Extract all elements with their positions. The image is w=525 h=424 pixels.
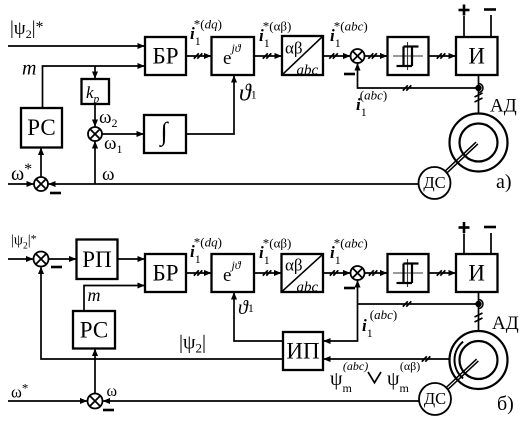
- slash sum-relay (b): [369, 270, 378, 275]
- slash relay-inverter (a): [437, 53, 446, 58]
- minus flux sum (b): [51, 266, 62, 269]
- svg-text:И: И: [468, 261, 485, 286]
- wire speed feedback (b): [103, 400, 418, 402]
- wire minus lead (b): [490, 233, 492, 254]
- wire current feedback to IP (b): [324, 304, 358, 341]
- slash ejtheta-ab (b): [263, 270, 272, 275]
- svg-text:i1*(abc): i1*(abc): [330, 236, 368, 268]
- wire ejtheta to ab-abc (a): [254, 55, 281, 57]
- svg-text:i1*(abc): i1*(abc): [330, 19, 368, 51]
- svg-text:РС: РС: [80, 318, 108, 343]
- motor AD (a): [450, 114, 508, 172]
- svg-text:РС: РС: [27, 115, 55, 140]
- block inverter I (a): [456, 37, 498, 75]
- slash flux measurement (b): [422, 356, 431, 361]
- svg-text:i1(abc): i1(abc): [362, 307, 397, 340]
- wire m from PC to BR (a): [43, 66, 145, 108]
- svg-text:ИП: ИП: [286, 339, 319, 364]
- svg-text:|ψ2|*: |ψ2|*: [11, 232, 37, 252]
- svg-text:ψm(αβ): ψm(αβ): [387, 359, 420, 395]
- minus speed sum (a): [50, 192, 61, 195]
- minus supply (a): [484, 8, 496, 11]
- slash ejtheta-ab (a): [263, 53, 272, 58]
- svg-text:m: m: [22, 58, 36, 80]
- wire flux measurement to IP (b): [324, 358, 450, 360]
- symbol vee (b): [368, 372, 381, 383]
- wire flux reference |psi2|* (b): [8, 258, 33, 260]
- wire ab-abc to sum (b): [323, 272, 350, 274]
- wire kp to summing junction (a): [94, 104, 96, 126]
- circle DS sensor (b): [419, 383, 451, 415]
- block integrator (a): [144, 115, 186, 153]
- block alphabeta-abc (a): [282, 36, 323, 75]
- wire relay to inverter (a): [429, 55, 456, 57]
- block IP (b): [283, 332, 323, 370]
- svg-text:РП: РП: [82, 247, 111, 272]
- wire sum to relay (a): [365, 55, 387, 57]
- wire ab-abc to sum (a): [323, 55, 350, 57]
- wire current feedback (a): [358, 64, 479, 88]
- svg-text:АД: АД: [490, 96, 517, 117]
- symbol hysteresis (a): [393, 42, 423, 70]
- block alphabeta-abc (b): [282, 254, 324, 292]
- block PC (a): [21, 108, 62, 148]
- wire current feedback to sum (b): [357, 281, 359, 304]
- svg-text:abc: abc: [297, 280, 319, 296]
- wire speed sum to PC (b): [94, 349, 96, 393]
- wire IP theta1 to ejtheta (b): [234, 293, 283, 341]
- svg-text:ДС: ДС: [423, 173, 445, 192]
- svg-text:ω*: ω*: [11, 381, 28, 402]
- svg-text:ϑ1: ϑ1: [239, 81, 257, 107]
- svg-text:ϑ1: ϑ1: [238, 297, 254, 319]
- summing junction current (b): [351, 266, 365, 280]
- slash motor lead (a): [475, 93, 483, 102]
- svg-text:ω: ω: [107, 383, 118, 400]
- wire plus lead (b): [463, 234, 465, 255]
- summing junction flux (b): [34, 252, 49, 267]
- svg-text:ω1: ω1: [104, 133, 123, 156]
- slash ab-sum (a): [329, 53, 338, 58]
- wire inverter to motor (b): [478, 292, 480, 332]
- wire IP psi2 to flux sum (b): [41, 267, 283, 359]
- summing junction current (a): [351, 49, 365, 63]
- svg-text:ω2: ω2: [99, 107, 118, 130]
- block kp (a): [82, 79, 110, 104]
- minus current sum (b): [344, 287, 355, 290]
- svg-text:б): б): [497, 393, 514, 415]
- wire omega ref (a): [8, 183, 33, 185]
- svg-text:αβ: αβ: [285, 39, 303, 58]
- motor AD (b): [450, 331, 508, 389]
- diagonal of ab-abc block (b): [282, 255, 322, 291]
- slash BR-ejtheta (b): [194, 270, 203, 275]
- wire minus lead (a): [490, 15, 492, 37]
- svg-text:ψm(abc): ψm(abc): [330, 359, 368, 395]
- svg-text:αβ: αβ: [285, 256, 303, 275]
- wire BR to ejtheta (a): [186, 55, 211, 57]
- slash motor lead (b): [475, 313, 483, 322]
- svg-text:ω: ω: [102, 164, 115, 185]
- wire omega branch to slip sum (a): [94, 142, 96, 185]
- wire BR to ejtheta (b): [186, 272, 211, 274]
- slash sum-relay (a): [368, 53, 377, 58]
- slash current feedback (a): [403, 85, 412, 90]
- summing junction speed (b): [88, 394, 103, 409]
- summing junction speed (a): [34, 177, 48, 191]
- wire tap m to kp (a): [94, 66, 96, 78]
- svg-text:|ψ2|: |ψ2|: [179, 332, 206, 356]
- svg-text:ω*: ω*: [11, 161, 32, 185]
- svg-text:ДС: ДС: [424, 389, 446, 408]
- wire flux reference |psi2|* (a): [8, 45, 144, 47]
- wire speed sum to PC (a): [40, 148, 42, 177]
- wire omega ref (b): [8, 400, 87, 402]
- block PC (b): [73, 311, 115, 349]
- slash current feedback (b): [403, 301, 412, 306]
- svg-text:i1(abc): i1(abc): [356, 88, 387, 120]
- summing junction slip (a): [88, 127, 102, 141]
- wire plus lead (a): [463, 16, 465, 37]
- wire integrator to ejtheta (a): [186, 76, 234, 134]
- wire flux sum to RP (b): [49, 258, 76, 260]
- block relay (a): [388, 37, 429, 75]
- diagonal of ab-abc block (a): [283, 37, 322, 74]
- slash ab-sum (b): [330, 270, 339, 275]
- node current tap (a): [475, 84, 483, 93]
- wire sum to relay (b): [365, 272, 387, 274]
- shaft (b): [446, 359, 479, 390]
- svg-text:m: m: [88, 285, 101, 305]
- svg-text:БР: БР: [153, 44, 179, 69]
- circle DS sensor (a): [419, 167, 451, 199]
- wire junction to integrator (a): [102, 133, 143, 135]
- block BR (a): [145, 37, 186, 75]
- wire relay to inverter (b): [429, 272, 456, 274]
- svg-text:И: И: [468, 44, 485, 69]
- block RP (b): [77, 240, 118, 280]
- wire current feedback horizontal (b): [358, 303, 479, 305]
- wire m from PC to BR (b): [84, 286, 144, 312]
- svg-text:АД: АД: [492, 313, 519, 334]
- block ejtheta (b): [212, 254, 255, 292]
- svg-text:а): а): [496, 171, 512, 193]
- svg-text:БР: БР: [153, 261, 179, 286]
- slash relay-inverter (b): [437, 270, 446, 275]
- block ejtheta (a): [212, 37, 255, 75]
- symbol hysteresis (b): [393, 259, 423, 287]
- wire ejtheta to ab-abc (b): [254, 272, 281, 274]
- wire RP to BR (b): [118, 258, 145, 260]
- node current tap (b): [475, 300, 483, 309]
- block BR (b): [145, 254, 186, 292]
- minus speed sum (b): [103, 409, 114, 412]
- svg-text:abc: abc: [297, 63, 319, 79]
- minus supply (b): [484, 226, 496, 229]
- minus current sum (a): [344, 73, 355, 76]
- plus supply (a): [459, 5, 470, 16]
- block inverter I (b): [456, 254, 498, 292]
- shaft (a): [445, 142, 478, 173]
- wire inverter to motor (a): [478, 75, 480, 114]
- svg-text:|ψ2|*: |ψ2|*: [10, 18, 44, 41]
- wire speed feedback (a): [49, 183, 419, 185]
- plus supply (b): [459, 222, 470, 233]
- slash BR-ejtheta (a): [194, 53, 203, 58]
- block relay (b): [388, 254, 429, 292]
